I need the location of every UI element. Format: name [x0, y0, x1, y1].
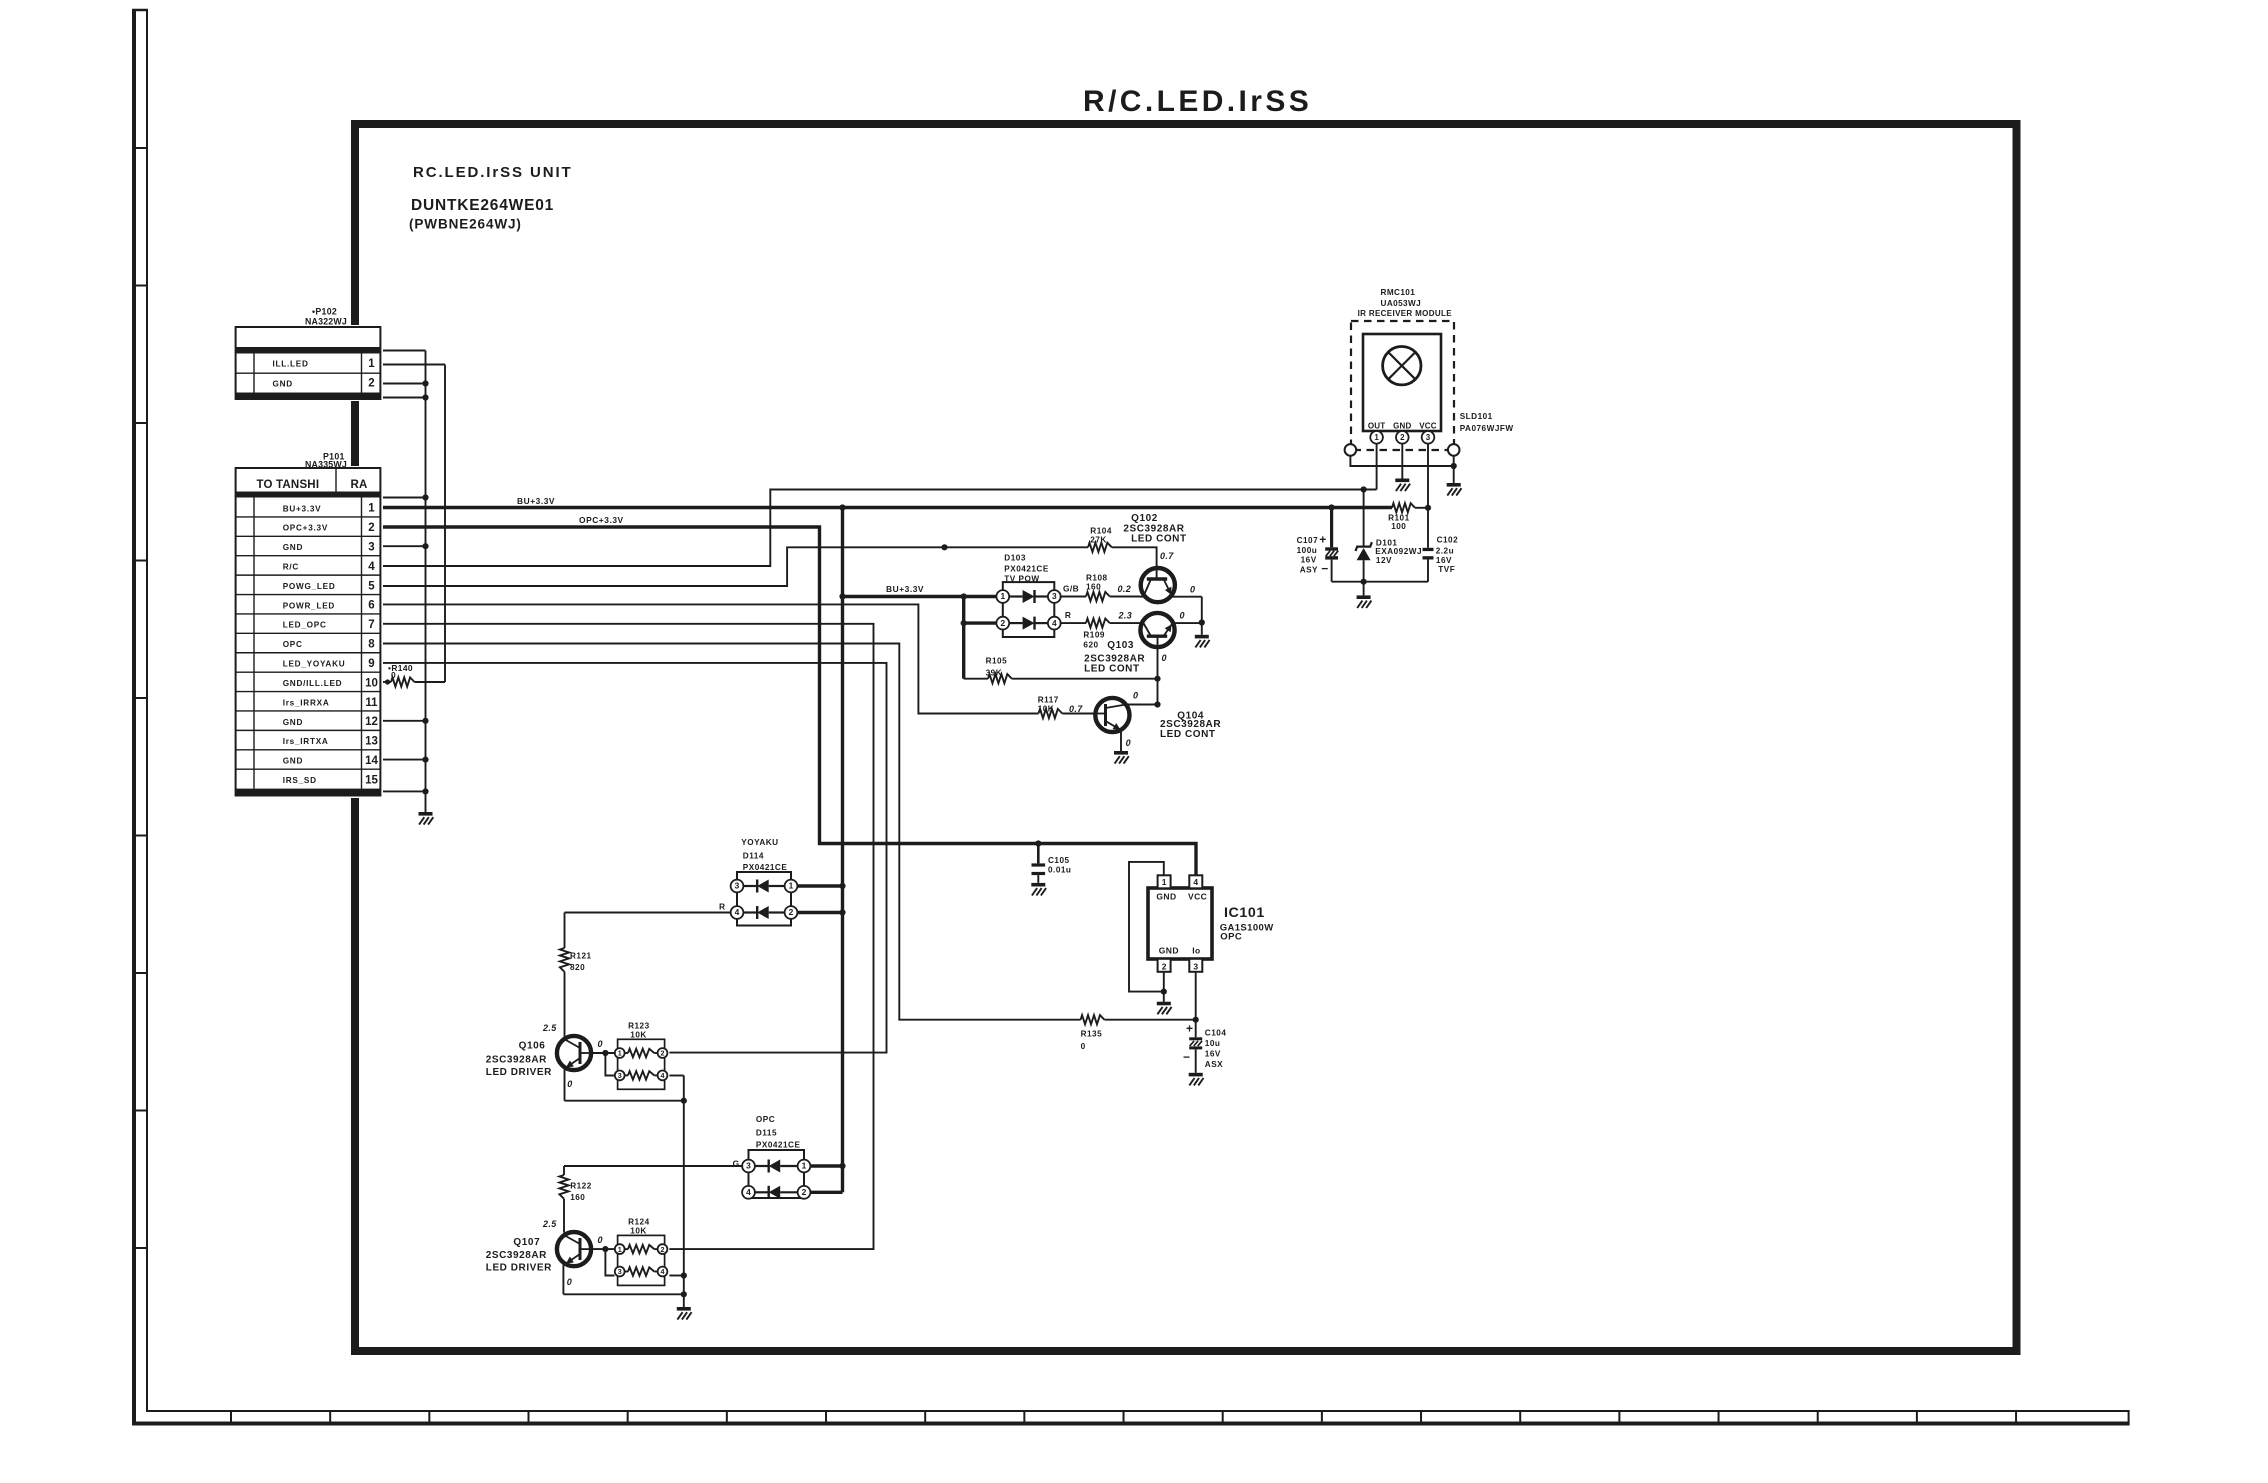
svg-text:16V: 16V: [1436, 556, 1452, 565]
svg-text:ASX: ASX: [1205, 1060, 1223, 1069]
svg-text:2: 2: [789, 907, 794, 917]
svg-text:TVF: TVF: [1438, 565, 1455, 574]
svg-text:0: 0: [1162, 653, 1167, 663]
svg-text:16V: 16V: [1301, 556, 1317, 565]
svg-text:3: 3: [1426, 433, 1431, 442]
svg-text:TO TANSHI: TO TANSHI: [257, 479, 320, 491]
svg-text:GND: GND: [1393, 421, 1411, 430]
svg-text:0: 0: [598, 1235, 603, 1245]
svg-text:(PWBNE264WJ): (PWBNE264WJ): [409, 217, 522, 232]
svg-text:10K: 10K: [630, 1031, 647, 1040]
svg-text:R/C.LED.IrSS: R/C.LED.IrSS: [1083, 85, 1312, 118]
svg-text:POWR_LED: POWR_LED: [283, 601, 335, 610]
svg-text:1: 1: [368, 358, 375, 370]
svg-text:PA076WJFW: PA076WJFW: [1460, 424, 1514, 433]
svg-text:1: 1: [1374, 433, 1379, 442]
svg-text:1: 1: [789, 881, 794, 891]
svg-text:0: 0: [598, 1039, 603, 1049]
svg-text:100u: 100u: [1297, 546, 1318, 555]
svg-text:BU+3.3V: BU+3.3V: [283, 504, 322, 513]
svg-text:−: −: [1183, 1050, 1190, 1064]
svg-text:11: 11: [365, 697, 378, 709]
svg-text:IRS_SD: IRS_SD: [283, 776, 317, 785]
svg-text:GND: GND: [1159, 945, 1179, 955]
svg-text:C107: C107: [1297, 536, 1319, 545]
svg-text:RC.LED.IrSS UNIT: RC.LED.IrSS UNIT: [413, 164, 573, 181]
svg-text:0: 0: [567, 1079, 572, 1089]
svg-text:12: 12: [365, 716, 378, 728]
svg-text:8: 8: [368, 639, 375, 651]
svg-text:3: 3: [618, 1267, 622, 1276]
svg-text:100: 100: [1391, 522, 1406, 531]
svg-text:ASY: ASY: [1300, 566, 1318, 575]
svg-text:7: 7: [368, 619, 374, 631]
svg-text:3: 3: [1193, 961, 1198, 971]
svg-text:820: 820: [570, 963, 585, 972]
svg-text:GND: GND: [1156, 892, 1176, 902]
svg-text:4: 4: [661, 1071, 665, 1080]
svg-text:R104: R104: [1090, 526, 1112, 535]
svg-text:2SC3928AR: 2SC3928AR: [486, 1054, 547, 1065]
svg-text:R105: R105: [986, 656, 1008, 665]
svg-text:10K: 10K: [1038, 705, 1055, 714]
svg-text:GND: GND: [273, 379, 293, 388]
svg-text:IC101: IC101: [1224, 905, 1265, 921]
svg-text:3: 3: [368, 542, 374, 554]
svg-text:OPC+3.3V: OPC+3.3V: [579, 515, 624, 525]
svg-text:TV POW: TV POW: [1004, 574, 1039, 583]
svg-text:+: +: [1186, 1022, 1193, 1036]
svg-text:2.5: 2.5: [542, 1023, 557, 1033]
svg-text:0: 0: [1126, 738, 1131, 748]
svg-text:1: 1: [618, 1049, 622, 1058]
svg-text:4: 4: [735, 907, 740, 917]
svg-text:4: 4: [368, 561, 375, 573]
svg-text:2: 2: [1400, 433, 1405, 442]
svg-text:GND: GND: [283, 543, 303, 552]
svg-text:0: 0: [1081, 1042, 1086, 1051]
svg-text:1: 1: [802, 1161, 807, 1171]
svg-text:D114: D114: [743, 852, 764, 861]
svg-text:+: +: [1319, 533, 1326, 547]
svg-text:R135: R135: [1081, 1030, 1103, 1039]
svg-text:6: 6: [368, 600, 374, 612]
svg-text:R123: R123: [628, 1022, 650, 1031]
svg-text:VCC: VCC: [1188, 892, 1207, 902]
svg-text:1: 1: [1162, 877, 1167, 887]
svg-text:NA335WJ: NA335WJ: [305, 460, 347, 470]
svg-text:UA053WJ: UA053WJ: [1381, 299, 1422, 308]
svg-text:16V: 16V: [1205, 1050, 1221, 1059]
svg-text:R121: R121: [570, 952, 592, 961]
svg-text:R: R: [719, 902, 725, 912]
svg-text:1: 1: [1000, 591, 1005, 601]
svg-text:G: G: [733, 1159, 740, 1169]
svg-text:Irs_IRRXA: Irs_IRRXA: [283, 698, 330, 707]
svg-text:15: 15: [365, 774, 378, 786]
svg-text:DUNTKE264WE01: DUNTKE264WE01: [411, 197, 554, 214]
svg-text:0: 0: [391, 670, 396, 680]
svg-text:620: 620: [1083, 641, 1098, 650]
svg-text:PX0421CE: PX0421CE: [756, 1140, 801, 1149]
svg-text:BU+3.3V: BU+3.3V: [517, 496, 555, 506]
svg-text:D103: D103: [1004, 554, 1026, 563]
svg-text:PX0421CE: PX0421CE: [743, 863, 788, 872]
svg-text:0: 0: [567, 1277, 572, 1287]
svg-text:0: 0: [1190, 584, 1195, 594]
svg-text:OPC+3.3V: OPC+3.3V: [283, 524, 328, 533]
svg-text:Q106: Q106: [519, 1041, 546, 1052]
svg-text:LED CONT: LED CONT: [1084, 663, 1140, 674]
svg-text:2.3: 2.3: [1118, 610, 1133, 620]
svg-text:RA: RA: [351, 479, 368, 491]
svg-text:2.2u: 2.2u: [1436, 547, 1454, 556]
svg-text:GND: GND: [283, 718, 303, 727]
svg-text:R109: R109: [1083, 631, 1105, 640]
svg-text:2: 2: [368, 522, 374, 534]
svg-text:2: 2: [1162, 961, 1167, 971]
svg-text:1: 1: [618, 1245, 622, 1254]
svg-text:9: 9: [368, 658, 374, 670]
svg-text:GND: GND: [283, 757, 303, 766]
svg-text:4: 4: [661, 1267, 665, 1276]
svg-text:2: 2: [661, 1245, 665, 1254]
svg-text:EXA092WJ: EXA092WJ: [1375, 547, 1422, 556]
svg-text:0: 0: [1180, 610, 1185, 620]
svg-text:OPC: OPC: [1220, 932, 1242, 943]
svg-text:LED CONT: LED CONT: [1160, 729, 1216, 740]
svg-text:2: 2: [368, 378, 374, 390]
svg-text:160: 160: [570, 1193, 585, 1202]
svg-text:R/C: R/C: [283, 563, 299, 572]
svg-text:SLD101: SLD101: [1460, 412, 1493, 421]
svg-text:LED DRIVER: LED DRIVER: [486, 1067, 552, 1078]
svg-text:14: 14: [365, 755, 378, 767]
svg-text:0.7: 0.7: [1069, 704, 1083, 714]
svg-text:3: 3: [1052, 591, 1057, 601]
svg-text:R124: R124: [628, 1218, 650, 1227]
svg-text:R122: R122: [570, 1182, 592, 1191]
svg-text:ILL.LED: ILL.LED: [273, 360, 309, 369]
svg-text:G/B: G/B: [1063, 584, 1079, 594]
svg-text:Q103: Q103: [1107, 640, 1134, 651]
svg-text:0.2: 0.2: [1118, 584, 1132, 594]
svg-text:OPC: OPC: [756, 1115, 775, 1124]
svg-text:3: 3: [746, 1161, 751, 1171]
svg-text:0: 0: [1133, 691, 1138, 701]
svg-text:LED_OPC: LED_OPC: [283, 621, 327, 630]
svg-text:27K: 27K: [1090, 536, 1107, 545]
svg-text:4: 4: [1193, 877, 1198, 887]
svg-text:0.01u: 0.01u: [1048, 866, 1071, 875]
svg-text:12V: 12V: [1376, 556, 1392, 565]
svg-text:•P102: •P102: [312, 307, 337, 317]
svg-text:VCC: VCC: [1419, 421, 1437, 430]
svg-text:BU+3.3V: BU+3.3V: [886, 584, 924, 594]
svg-text:D115: D115: [756, 1129, 777, 1138]
svg-text:2: 2: [1000, 618, 1005, 628]
svg-text:0.7: 0.7: [1160, 551, 1174, 561]
svg-text:2SC3928AR: 2SC3928AR: [486, 1250, 547, 1261]
svg-text:10u: 10u: [1205, 1039, 1221, 1048]
svg-text:LED_YOYAKU: LED_YOYAKU: [283, 660, 346, 669]
svg-text:5: 5: [368, 580, 375, 592]
svg-text:13: 13: [365, 736, 378, 748]
svg-text:R117: R117: [1038, 696, 1059, 705]
svg-text:2: 2: [802, 1187, 807, 1197]
svg-text:4: 4: [1052, 618, 1057, 628]
svg-text:GND/ILL.LED: GND/ILL.LED: [283, 679, 343, 688]
svg-text:4: 4: [746, 1187, 751, 1197]
svg-text:C104: C104: [1205, 1028, 1227, 1037]
svg-text:10K: 10K: [630, 1227, 647, 1236]
svg-text:1: 1: [368, 503, 375, 515]
svg-text:NA322WJ: NA322WJ: [305, 317, 347, 327]
svg-text:OPC: OPC: [283, 640, 303, 649]
svg-text:RMC101: RMC101: [1381, 288, 1416, 297]
svg-text:LED DRIVER: LED DRIVER: [486, 1263, 552, 1274]
svg-text:2.5: 2.5: [542, 1219, 557, 1229]
svg-text:−: −: [1321, 562, 1328, 576]
svg-text:OUT: OUT: [1368, 421, 1386, 430]
svg-text:YOYAKU: YOYAKU: [741, 838, 778, 847]
svg-text:IR RECEIVER MODULE: IR RECEIVER MODULE: [1358, 309, 1453, 318]
svg-text:3: 3: [618, 1071, 622, 1080]
svg-text:C102: C102: [1437, 536, 1459, 545]
svg-text:R108: R108: [1086, 574, 1108, 583]
svg-text:Io: Io: [1192, 945, 1200, 955]
svg-text:2: 2: [661, 1049, 665, 1058]
svg-text:PX0421CE: PX0421CE: [1004, 565, 1049, 574]
svg-text:3: 3: [735, 881, 740, 891]
svg-text:10: 10: [365, 677, 378, 689]
svg-text:C105: C105: [1048, 856, 1070, 865]
svg-text:39K: 39K: [986, 668, 1003, 677]
svg-text:LED CONT: LED CONT: [1131, 533, 1187, 544]
svg-text:Irs_IRTXA: Irs_IRTXA: [283, 737, 329, 746]
svg-text:R: R: [1065, 610, 1071, 620]
svg-text:POWG_LED: POWG_LED: [283, 582, 336, 591]
svg-text:Q107: Q107: [513, 1237, 540, 1248]
svg-text:160: 160: [1086, 583, 1101, 592]
